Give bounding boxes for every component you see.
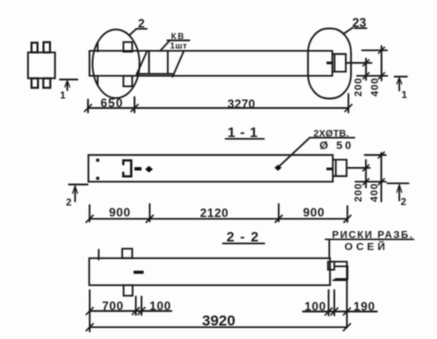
wedge insert KV (137, 51, 184, 77)
bottom stub (2-2) (124, 285, 133, 296)
svg-text:200: 200 (354, 183, 365, 202)
svg-text:2ХØТВ.: 2ХØТВ. (314, 128, 350, 139)
svg-text:1шт: 1шт (170, 40, 187, 50)
plan right tenon (332, 54, 346, 72)
section mark 1 left (60, 80, 78, 102)
detail bubble 2 (ellipse) (93, 30, 140, 99)
svg-text:700: 700 (102, 299, 124, 313)
column cross-section symbol (top-left) (28, 42, 55, 88)
title 1-1 (226, 124, 265, 140)
detail bubble 23 (obround) (308, 29, 351, 99)
1-1 right tenon (333, 160, 347, 176)
svg-text:2: 2 (66, 198, 72, 209)
svg-text:1: 1 (402, 90, 408, 101)
label 23 leader (344, 16, 367, 34)
hole diamond mark 2 (274, 165, 281, 171)
leader KV 1шт (160, 31, 189, 51)
leader to РИСКИ label (328, 240, 330, 258)
svg-text:200: 200 (354, 77, 365, 96)
title 2-2 (223, 229, 265, 245)
2-2 right tenon outer (333, 262, 347, 281)
svg-text:190: 190 (354, 300, 376, 314)
svg-text:400: 400 (370, 77, 381, 96)
svg-text:1 - 1: 1 - 1 (228, 124, 259, 140)
svg-text:400: 400 (370, 183, 381, 202)
section mark 1 right (395, 77, 408, 101)
1-1 right axis dash (326, 168, 332, 171)
svg-text:900: 900 (109, 206, 131, 220)
axis dash (2-2) (134, 271, 144, 274)
svg-text:23: 23 (352, 16, 366, 30)
section 2-2 beam outline (89, 258, 330, 285)
svg-text:Ø 50: Ø 50 (320, 140, 354, 152)
rebar stub top (plan) (123, 42, 132, 52)
svg-text:3270: 3270 (228, 97, 256, 111)
2-2 dim row 700/100 left (86, 290, 171, 332)
axis dash (1-1 left) (135, 167, 142, 170)
label РИСКИ РАЗБ ОСЕЙ (325, 230, 413, 253)
label 2 leader (130, 17, 147, 35)
2-2 right end small plate (328, 262, 334, 270)
top stub (2-2) (122, 249, 132, 259)
dimension line 650 / 3270 (85, 94, 352, 113)
axis tick 2-2 left (98, 250, 100, 260)
svg-text:2: 2 (401, 197, 407, 208)
1-1 dimension row 900/2120/900 (86, 204, 351, 222)
svg-text:1: 1 (60, 91, 66, 102)
svg-text:2: 2 (138, 17, 145, 31)
2-2 dim row 100/190 right (303, 281, 377, 328)
section mark 2 right (387, 183, 408, 208)
2-2 dim 3920 (86, 313, 350, 331)
svg-text:2 - 2: 2 - 2 (227, 229, 260, 245)
svg-text:3920: 3920 (202, 313, 235, 330)
1-1 200/400 dimensions (348, 152, 386, 202)
section 1-1 beam outline (88, 155, 332, 182)
strand dots (1-1 left) (96, 159, 99, 180)
leader 2 holes d50 (280, 128, 355, 166)
svg-text:650: 650 (101, 96, 124, 110)
rebar stub bottom (plan) (123, 76, 132, 87)
diamond mark 1 (145, 166, 153, 173)
anchor bracket (1-1) (123, 160, 131, 176)
section mark 2 left (66, 185, 88, 209)
svg-text:2120: 2120 (200, 206, 229, 220)
plan view beam outline (90, 51, 333, 76)
svg-text:КВ: КВ (171, 31, 185, 41)
svg-text:ОСЕЙ: ОСЕЙ (345, 240, 389, 253)
2-2 right tenon inner (336, 266, 348, 279)
svg-text:100: 100 (305, 300, 327, 314)
svg-text:900: 900 (303, 205, 325, 219)
svg-text:100: 100 (150, 299, 172, 313)
axis mark ticks near left end (97, 42, 99, 85)
plan 200/400 dimensions (right) (347, 46, 388, 97)
plan right axis dash (327, 62, 334, 65)
